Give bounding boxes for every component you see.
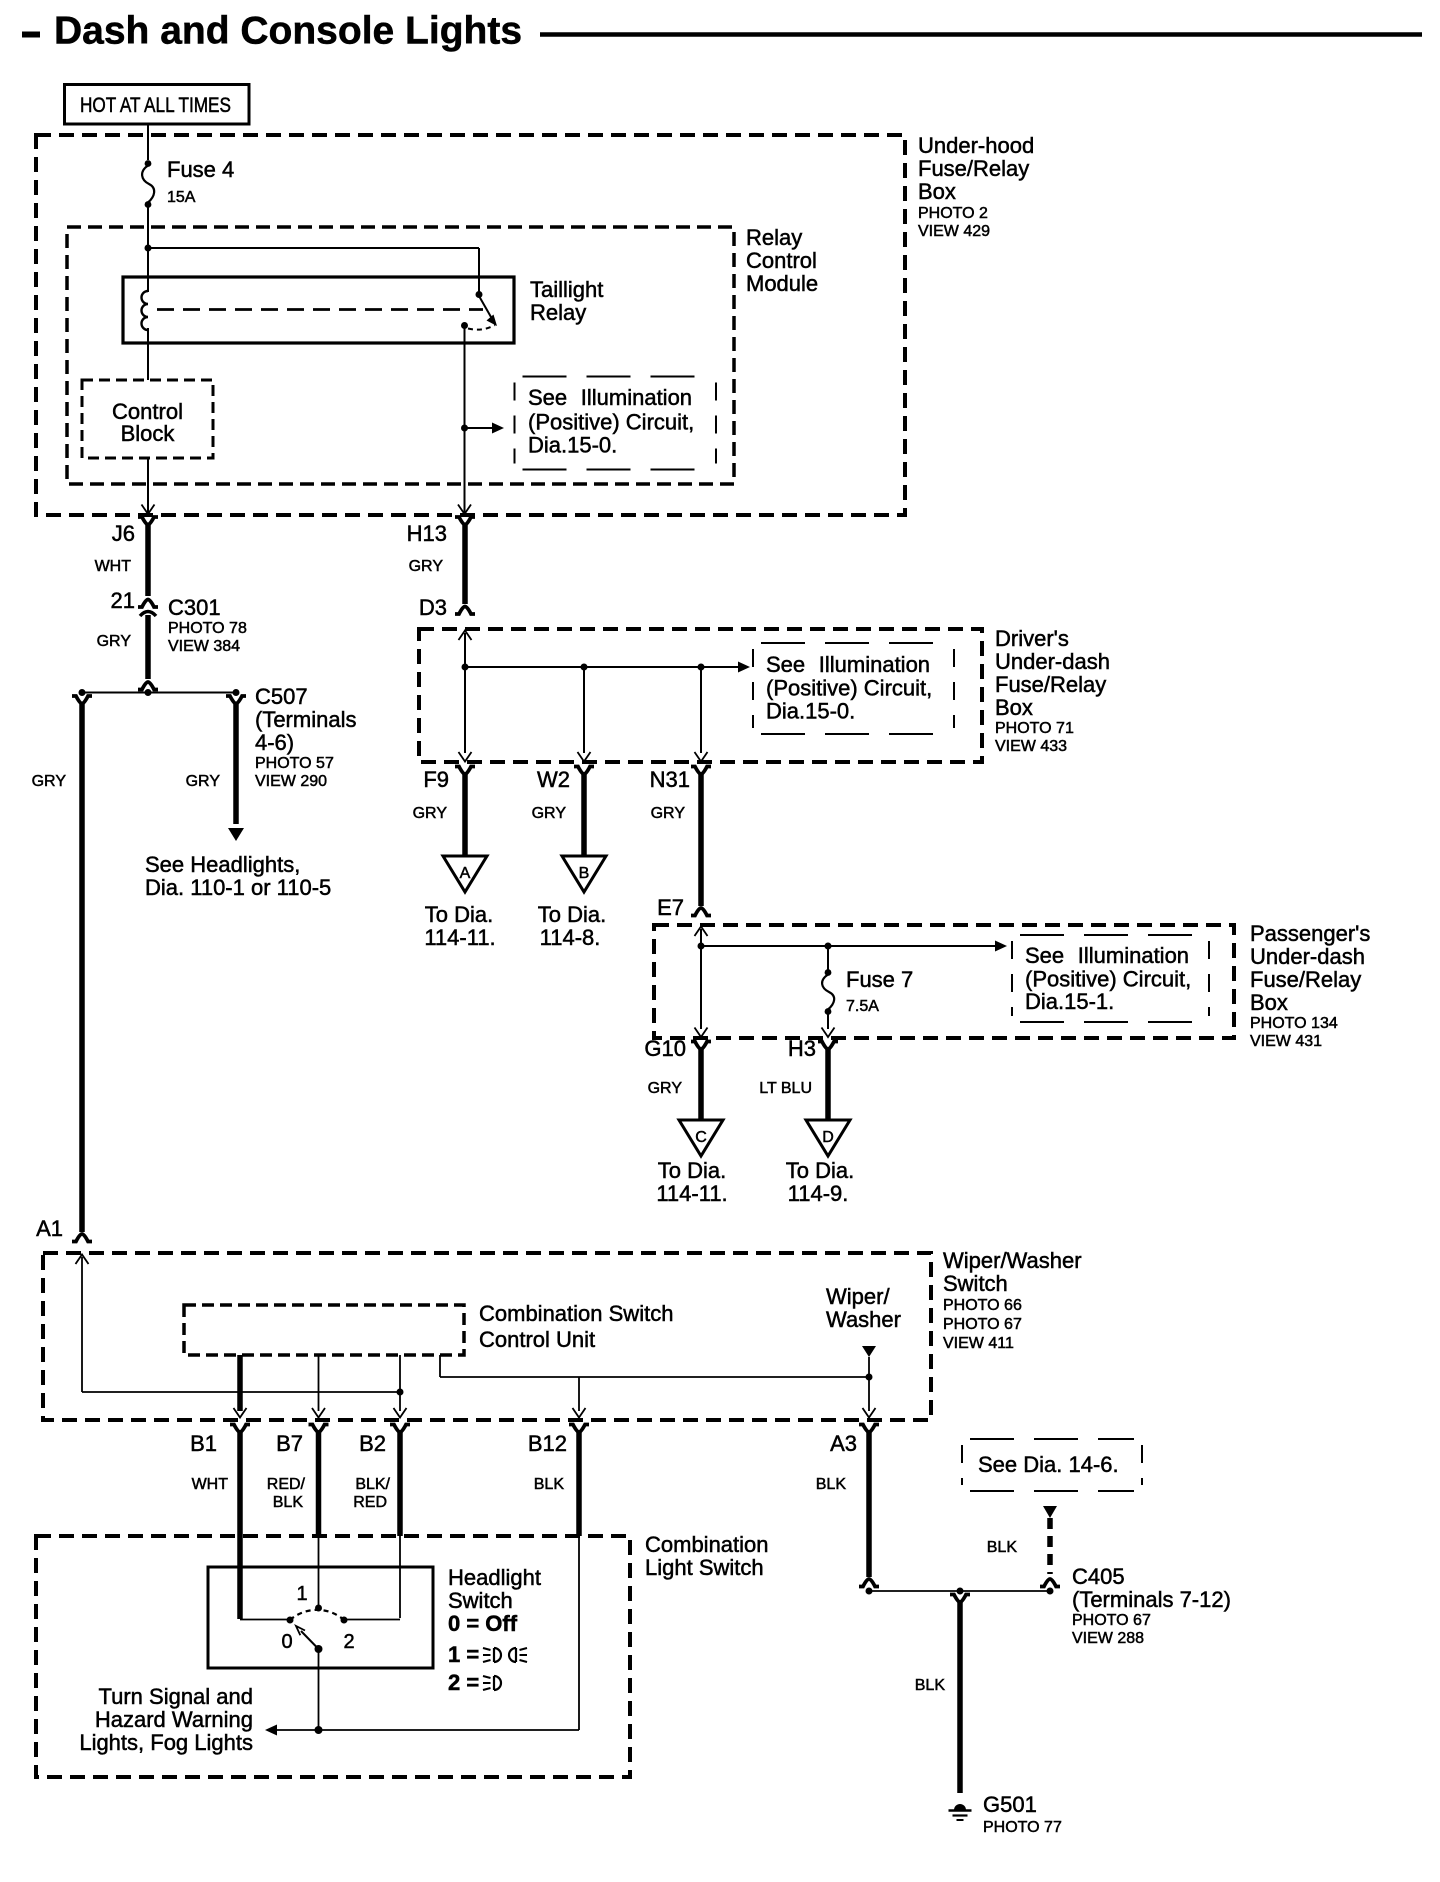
svg-text:Washer: Washer [826,1307,901,1332]
svg-text:A1: A1 [36,1216,63,1241]
svg-text:Driver's: Driver's [995,626,1069,651]
svg-text:Fuse/Relay: Fuse/Relay [1250,967,1361,992]
svg-text:B2: B2 [359,1431,386,1456]
svg-text:H13: H13 [407,521,447,546]
svg-text:HOT AT ALL TIMES: HOT AT ALL TIMES [80,94,231,117]
svg-text:PHOTO 77: PHOTO 77 [983,1819,1062,1836]
svg-text:VIEW 384: VIEW 384 [168,638,240,655]
svg-text:4-6): 4-6) [255,730,294,755]
svg-text:Box: Box [1250,990,1288,1015]
svg-text:Block: Block [121,421,176,446]
svg-text:Under-hood: Under-hood [918,133,1034,158]
svg-text:BLK: BLK [273,1494,304,1511]
svg-text:Switch: Switch [943,1271,1008,1296]
svg-text:VIEW 288: VIEW 288 [1072,1630,1144,1647]
svg-text:PHOTO 134: PHOTO 134 [1250,1015,1338,1032]
svg-text:PHOTO 67: PHOTO 67 [1072,1612,1151,1629]
svg-text:G10: G10 [644,1036,686,1061]
svg-text:GRY: GRY [32,773,67,790]
svg-text:Dash and Console Lights: Dash and Console Lights [54,10,522,53]
svg-text:Hazard Warning: Hazard Warning [95,1707,253,1732]
svg-text:To Dia.: To Dia. [786,1158,854,1183]
svg-text:Combination Switch: Combination Switch [479,1301,673,1326]
svg-text:See Headlights,: See Headlights, [145,852,300,877]
svg-text:D3: D3 [419,595,447,620]
svg-text:To Dia.: To Dia. [425,902,493,927]
svg-text:Box: Box [918,179,956,204]
svg-text:Combination: Combination [645,1532,769,1557]
svg-text:BLK: BLK [534,1476,565,1493]
svg-text:GRY: GRY [648,1080,683,1097]
svg-text:Dia.15-0.: Dia.15-0. [766,699,855,724]
svg-text:Wiper/Washer: Wiper/Washer [943,1248,1082,1273]
svg-text:Fuse/Relay: Fuse/Relay [995,672,1106,697]
svg-text:N31: N31 [650,767,690,792]
svg-text:LT BLU: LT BLU [759,1080,812,1097]
svg-text:PHOTO 2: PHOTO 2 [918,205,988,222]
svg-text:Module: Module [746,271,818,296]
svg-text:E7: E7 [657,895,684,920]
svg-text:(Terminals: (Terminals [255,707,356,732]
svg-text:0: 0 [281,1631,292,1653]
svg-text:0 = Off: 0 = Off [448,1611,518,1636]
svg-text:Relay: Relay [746,225,802,250]
svg-text:Relay: Relay [530,300,586,325]
svg-text:D: D [822,1129,834,1146]
svg-text:Fuse 7: Fuse 7 [846,967,913,992]
svg-text:To Dia.: To Dia. [538,902,606,927]
svg-text:GRY: GRY [186,773,221,790]
svg-text:21: 21 [111,588,135,613]
svg-text:Box: Box [995,695,1033,720]
svg-text:114-11.: 114-11. [656,1181,727,1206]
svg-text:PHOTO 66: PHOTO 66 [943,1297,1022,1314]
svg-text:Fuse/Relay: Fuse/Relay [918,156,1029,181]
svg-text:WHT: WHT [95,558,132,575]
svg-text:Turn Signal and: Turn Signal and [98,1684,253,1709]
svg-text:Passenger's: Passenger's [1250,921,1370,946]
svg-text:BLK: BLK [816,1476,847,1493]
svg-text:1 =: 1 = [448,1642,479,1667]
svg-text:PHOTO 57: PHOTO 57 [255,755,334,772]
svg-text:B12: B12 [528,1431,567,1456]
svg-text:(Positive) Circuit,: (Positive) Circuit, [766,676,932,701]
svg-text:GRY: GRY [532,805,567,822]
svg-text:A: A [460,865,471,882]
svg-text:VIEW 290: VIEW 290 [255,773,327,790]
svg-text:(Positive) Circuit,: (Positive) Circuit, [528,410,694,435]
svg-text:Dia.15-1.: Dia.15-1. [1025,989,1114,1014]
svg-text:(Terminals 7-12): (Terminals 7-12) [1072,1587,1231,1612]
svg-text:J6: J6 [112,521,135,546]
svg-text:(Positive) Circuit,: (Positive) Circuit, [1025,967,1191,992]
svg-text:PHOTO 71: PHOTO 71 [995,720,1074,737]
svg-text:Lights, Fog Lights: Lights, Fog Lights [79,1730,253,1755]
svg-text:114-8.: 114-8. [540,925,601,950]
svg-text:Control: Control [746,248,817,273]
svg-text:G501: G501 [983,1792,1037,1817]
svg-text:Wiper/: Wiper/ [826,1284,890,1309]
svg-text:C301: C301 [168,595,221,620]
svg-text:RED/: RED/ [267,1476,306,1493]
svg-text:RED: RED [353,1494,387,1511]
svg-text:W2: W2 [537,767,570,792]
svg-text:GRY: GRY [651,805,686,822]
svg-text:See Illumination: See Illumination [1025,943,1189,968]
svg-text:To Dia.: To Dia. [658,1158,726,1183]
svg-text:F9: F9 [423,767,449,792]
svg-text:7.5A: 7.5A [846,998,879,1015]
svg-text:2 =: 2 = [448,1670,479,1695]
svg-text:VIEW 411: VIEW 411 [943,1335,1014,1352]
svg-text:Taillight: Taillight [530,277,603,302]
svg-text:GRY: GRY [97,633,132,650]
svg-text:VIEW 433: VIEW 433 [995,738,1067,755]
svg-text:BLK: BLK [915,1677,946,1694]
svg-text:PHOTO 67: PHOTO 67 [943,1316,1022,1333]
svg-text:Light Switch: Light Switch [645,1555,764,1580]
svg-text:C405: C405 [1072,1564,1125,1589]
svg-text:114-9.: 114-9. [788,1181,849,1206]
svg-text:Headlight: Headlight [448,1565,541,1590]
svg-text:WHT: WHT [192,1476,229,1493]
svg-text:B7: B7 [276,1431,303,1456]
svg-text:2: 2 [343,1631,354,1653]
svg-text:Fuse 4: Fuse 4 [167,157,234,182]
svg-text:Dia. 110-1 or 110-5: Dia. 110-1 or 110-5 [145,875,331,900]
svg-text:Switch: Switch [448,1588,513,1613]
svg-text:H3: H3 [788,1036,816,1061]
svg-text:BLK: BLK [987,1539,1018,1556]
svg-text:See Illumination: See Illumination [528,385,692,410]
svg-text:C: C [695,1129,707,1146]
svg-text:Dia.15-0.: Dia.15-0. [528,433,617,458]
svg-text:GRY: GRY [413,805,448,822]
svg-text:BLK/: BLK/ [355,1476,390,1493]
svg-text:VIEW 431: VIEW 431 [1250,1033,1322,1050]
svg-text:B1: B1 [190,1431,217,1456]
svg-text:See Dia. 14-6.: See Dia. 14-6. [978,1452,1119,1477]
svg-text:1: 1 [296,1583,307,1605]
svg-text:B: B [579,865,590,882]
svg-text:VIEW 429: VIEW 429 [918,223,990,240]
svg-text:Control Unit: Control Unit [479,1327,595,1352]
svg-text:See Illumination: See Illumination [766,652,930,677]
svg-text:114-11.: 114-11. [424,925,495,950]
svg-text:GRY: GRY [409,558,444,575]
svg-text:Under-dash: Under-dash [995,649,1110,674]
svg-text:C507: C507 [255,684,308,709]
svg-text:Under-dash: Under-dash [1250,944,1365,969]
svg-text:PHOTO 78: PHOTO 78 [168,620,247,637]
svg-text:15A: 15A [167,189,196,206]
svg-text:A3: A3 [830,1431,857,1456]
